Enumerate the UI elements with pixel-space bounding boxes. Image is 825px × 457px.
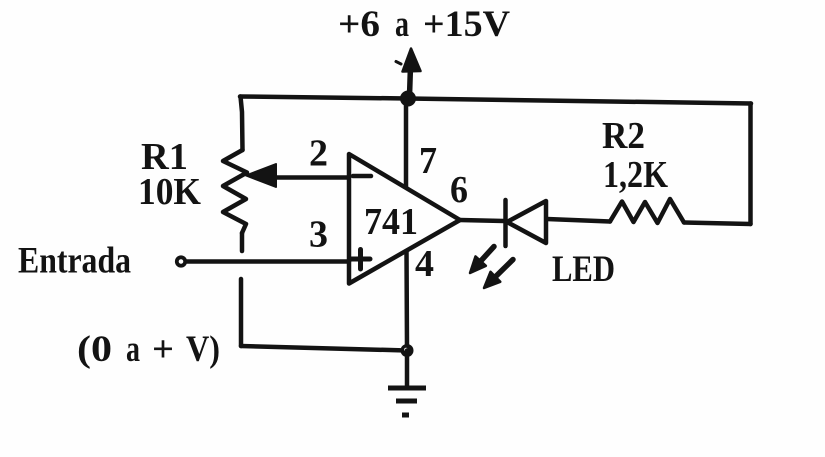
svg-text:+6: +6 bbox=[338, 4, 380, 45]
LED cathode bar bbox=[503, 200, 508, 246]
wire bottom left vertical bbox=[239, 279, 244, 346]
label R2 bbox=[602, 115, 645, 157]
node junction bottom bbox=[401, 344, 414, 357]
svg-text:1,2K: 1,2K bbox=[603, 154, 668, 196]
op-amp U1 741 triangle bbox=[349, 154, 460, 284]
svg-text:10K: 10K bbox=[138, 171, 201, 213]
svg-text:a: a bbox=[126, 329, 140, 370]
svg-text:+: + bbox=[152, 329, 174, 370]
svg-text:3: 3 bbox=[309, 214, 328, 256]
svg-text:+15V: +15V bbox=[423, 4, 510, 45]
node junction top bbox=[400, 91, 416, 107]
svg-text:2: 2 bbox=[309, 133, 328, 175]
svg-text:R2: R2 bbox=[602, 115, 645, 157]
wire output pin 6 bbox=[460, 220, 504, 221]
svg-text:4: 4 bbox=[415, 243, 434, 285]
label (0 a + V) bbox=[77, 329, 220, 370]
LED light arrow 2 bbox=[484, 260, 513, 289]
label 1,2K bbox=[603, 154, 668, 196]
wire pin 7 vertical bbox=[404, 99, 409, 188]
wire pin 4 vertical bbox=[404, 251, 409, 348]
ground bbox=[388, 388, 426, 415]
pin label 6 bbox=[450, 169, 468, 211]
label 741 bbox=[364, 201, 418, 243]
wire top rail bbox=[240, 97, 751, 104]
wire bottom rail bbox=[241, 346, 407, 351]
svg-text:Entrada: Entrada bbox=[18, 241, 131, 282]
LED triangle bbox=[507, 201, 546, 243]
label LED bbox=[552, 249, 615, 290]
wire input to pin 3 bbox=[187, 259, 349, 264]
op-amp inverting input minus bbox=[353, 174, 371, 179]
svg-text:a: a bbox=[395, 4, 409, 45]
svg-text:7: 7 bbox=[419, 140, 437, 182]
wire to ground bbox=[405, 351, 410, 388]
pin label 3 bbox=[309, 214, 328, 256]
svg-text:(0: (0 bbox=[77, 329, 112, 370]
wire LED to R2 bbox=[547, 219, 610, 222]
pin label 7 bbox=[419, 140, 437, 182]
net +V supply label bbox=[338, 4, 510, 45]
wire right vertical bbox=[748, 104, 753, 225]
wiper arrowhead bbox=[246, 164, 276, 187]
pin label 2 bbox=[309, 133, 328, 175]
node input terminal bbox=[177, 257, 185, 265]
label R1 bbox=[141, 136, 188, 178]
LED light arrow 1 bbox=[470, 247, 494, 274]
resistor R2 zigzag bbox=[610, 199, 684, 223]
svg-text:V): V) bbox=[186, 329, 220, 370]
wire wiper to pin 2 bbox=[272, 175, 349, 180]
label Entrada bbox=[18, 241, 131, 282]
resistor R1 bottom lead stub bbox=[240, 233, 245, 251]
svg-text:6: 6 bbox=[450, 169, 468, 211]
wire left vertical from top rail to R1 bbox=[241, 97, 243, 151]
label 10K bbox=[138, 171, 201, 213]
power supply arrow bbox=[396, 49, 421, 97]
svg-text:LED: LED bbox=[552, 249, 615, 290]
wire R2 to right corner bbox=[684, 223, 751, 225]
op-amp non-inverting input plus bbox=[351, 250, 370, 270]
pin label 4 bbox=[415, 243, 434, 285]
resistor R1 (potentiometer) zigzag bbox=[223, 150, 247, 233]
svg-text:741: 741 bbox=[364, 201, 418, 243]
